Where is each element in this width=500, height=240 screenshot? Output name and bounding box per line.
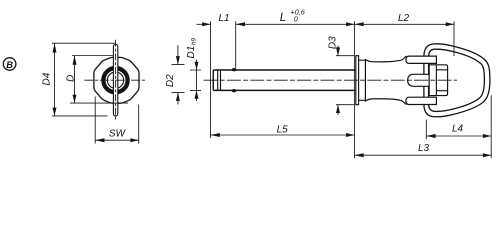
dimension D line bbox=[74, 56, 76, 104]
stirrup hub block bbox=[429, 65, 447, 96]
dimension L1 line left arrow bbox=[197, 23, 211, 25]
dimension D3 extension lines bbox=[336, 56, 354, 105]
dimension extension collar bbox=[353, 21, 355, 158]
svg-text:L1: L1 bbox=[218, 13, 229, 24]
stirrup bow inner contour bbox=[429, 49, 485, 111]
svg-text:L3: L3 bbox=[418, 143, 430, 154]
end view ring dark annulus bbox=[104, 68, 128, 92]
pin shank bottom edge bbox=[213, 89, 355, 91]
locking ball bottom bbox=[232, 89, 237, 92]
dimension D3 bottom arrow bbox=[337, 105, 339, 115]
dimension extension bow top bbox=[453, 21, 455, 56]
dimension L5 line bbox=[211, 134, 355, 136]
side view main centerline bbox=[204, 79, 458, 81]
end view stirrup edge-on strip bbox=[113, 44, 117, 116]
end view ring outer circle bbox=[102, 66, 130, 94]
dimension L4 line bbox=[426, 135, 491, 137]
svg-text:L2: L2 bbox=[398, 13, 410, 24]
stirrup hub block divider line bbox=[435, 65, 437, 96]
svg-text:L5: L5 bbox=[277, 124, 289, 135]
pin nose face bbox=[212, 70, 214, 90]
svg-text:L4: L4 bbox=[452, 124, 464, 135]
dimension L line bbox=[236, 23, 355, 25]
svg-text:D2: D2 bbox=[165, 74, 176, 87]
grip front face bbox=[364, 59, 366, 101]
svg-text:D1h9: D1h9 bbox=[186, 37, 198, 58]
grip clevis bottom prong bbox=[406, 97, 437, 104]
end view octagon outline (grip cross-section) bbox=[94, 57, 139, 103]
svg-text:L: L bbox=[280, 12, 286, 24]
dimension SW line bbox=[95, 139, 139, 141]
grip body bottom contour bbox=[365, 99, 406, 105]
pin nose chamfer lines bbox=[218, 70, 221, 90]
dimension D1 extension ticks bbox=[190, 70, 201, 90]
svg-text:D4: D4 bbox=[42, 72, 53, 85]
dimension D2 line bottom arrow bbox=[177, 93, 179, 105]
dimension L2 line bbox=[354, 23, 454, 25]
dimension extension nose bbox=[210, 21, 212, 138]
dimension D1 top arrow bbox=[196, 60, 198, 71]
dimension D4 extension lines bbox=[52, 43, 115, 116]
dimension D extension lines bbox=[70, 56, 128, 104]
dimension D4 line bbox=[54, 43, 56, 116]
svg-text:D3: D3 bbox=[327, 36, 338, 49]
dimension SW extension lines bbox=[95, 97, 139, 144]
dimension D3 top arrow bbox=[337, 46, 339, 56]
pin shank top edge bbox=[213, 69, 355, 71]
dimension L3 line bbox=[354, 154, 491, 156]
grip body top contour bbox=[365, 56, 406, 62]
stirrup hub block step lines bbox=[436, 70, 447, 91]
end view ring inner circle bbox=[107, 72, 123, 88]
stirrup bow outer contour bbox=[424, 44, 490, 117]
view label B circle bbox=[3, 58, 16, 71]
grip neck section bbox=[359, 60, 366, 100]
locking ball top bbox=[232, 68, 237, 71]
dimension D1 bottom arrow bbox=[196, 90, 198, 101]
stirrup bow end hook lines bbox=[424, 59, 429, 103]
svg-text:B: B bbox=[6, 59, 13, 70]
svg-text:D: D bbox=[66, 75, 77, 82]
dimension D1 line through pin bbox=[196, 70, 198, 90]
dimension L4 extension lines bbox=[426, 95, 491, 158]
dimension extension ball bbox=[235, 21, 237, 68]
stirrup hub bar bbox=[408, 74, 430, 86]
dimension D2 extension ticks bbox=[172, 64, 185, 92]
grip flange washer bbox=[356, 56, 359, 105]
dimension D2 line top arrow bbox=[177, 45, 179, 64]
grip clevis top prong bbox=[406, 56, 437, 63]
svg-text:SW: SW bbox=[109, 129, 127, 140]
svg-text:0: 0 bbox=[294, 15, 298, 24]
end view strip vertical centerline bbox=[115, 40, 117, 122]
end view horizontal centerline bbox=[84, 79, 146, 81]
